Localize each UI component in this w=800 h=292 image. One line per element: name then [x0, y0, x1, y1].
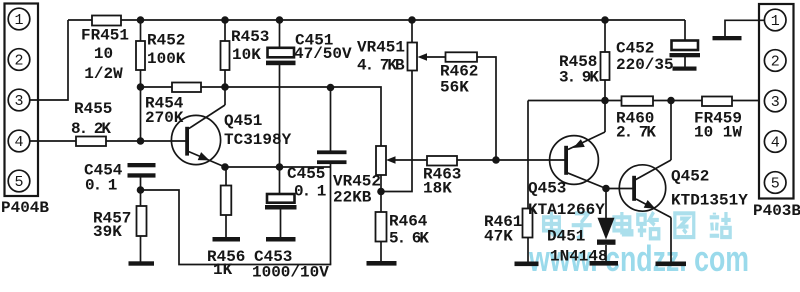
wire C452 bottom stub [684, 57, 686, 67]
svg-text:1: 1 [771, 13, 780, 30]
potentiometer VR451 wiper arrow [418, 53, 428, 60]
node junction C454 bottom [137, 186, 145, 194]
node junction rail/C451 [276, 16, 284, 24]
node junction emitter/C453 [276, 163, 284, 171]
svg-text:18K: 18K [423, 180, 452, 198]
svg-text:FR451: FR451 [81, 27, 129, 45]
svg-text:2: 2 [771, 54, 780, 71]
svg-text:D451: D451 [547, 227, 585, 245]
wire R462 to base line (x=496) [477, 57, 496, 160]
svg-text:Q452: Q452 [671, 168, 709, 186]
svg-text:5. 6K: 5. 6K [389, 230, 429, 248]
node junction VR452 bottom/R464 [377, 188, 385, 196]
svg-text:P404B: P404B [1, 199, 49, 217]
capacitor C452 negative plate [670, 53, 701, 57]
svg-text:10: 10 [94, 45, 113, 63]
connector P404B (pins 1-5) [5, 4, 39, 197]
svg-text:R455: R455 [74, 100, 112, 118]
svg-text:TC3198Y: TC3198Y [224, 131, 292, 149]
capacitor C451 47/50V (electrolytic) positive plate [268, 48, 295, 58]
svg-text:4: 4 [771, 135, 780, 152]
svg-text:8. 2K: 8. 2K [71, 120, 111, 138]
earth bar near P403B pin1 [713, 36, 742, 40]
svg-text:KTD1351Y: KTD1351Y [671, 192, 748, 210]
svg-text:4: 4 [14, 134, 23, 151]
potentiometer VR451 4.7KB body [408, 43, 418, 71]
ground under R464 [367, 261, 397, 266]
transistor Q452 KTD1351Y (NPN) [619, 165, 665, 211]
svg-text:C455: C455 [287, 165, 325, 183]
capacitor C451 negative plate [266, 61, 296, 66]
node junction rail/R452 [137, 16, 145, 24]
wire rail corner down to C452 [684, 20, 686, 41]
potentiometer VR452 22KB body [376, 146, 386, 175]
wire Q453 emitter vertical [604, 101, 606, 133]
wire bottom return (C454 node to C455 bottom) [141, 190, 332, 265]
svg-text:R452: R452 [147, 31, 185, 49]
node junction output/R458/Q453 emitter [601, 97, 609, 105]
resistor R456 1K [221, 186, 232, 216]
capacitor C452 220/35 (electrolytic) positive plate [672, 41, 699, 51]
svg-text:KTA1266Y: KTA1266Y [528, 201, 605, 219]
svg-text:47K: 47K [484, 228, 513, 246]
ground under R457 [129, 261, 155, 265]
wire node B to C455 top [330, 88, 332, 151]
resistor R458 3.9K [601, 52, 610, 80]
potentiometer VR452 wiper arrow [386, 156, 396, 163]
ground under C452 [673, 67, 697, 71]
wire Q452 emitter to ground [670, 218, 672, 263]
svg-text:0. 1: 0. 1 [85, 177, 117, 195]
wire P403B pin1 to earth stub [725, 20, 765, 36]
wire C451/C453 branch upper [279, 20, 281, 48]
transistor Q451 TC3198Y (NPN) [171, 115, 220, 164]
wire VR451 branch from rail [411, 20, 413, 43]
svg-text:100K: 100K [147, 50, 186, 68]
svg-text:2. 7K: 2. 7K [616, 124, 656, 142]
svg-text:47/50V: 47/50V [294, 45, 352, 63]
ground under R456 [213, 237, 241, 242]
svg-text:3: 3 [771, 94, 780, 111]
svg-text:5: 5 [14, 174, 23, 191]
svg-text:10 1W: 10 1W [694, 124, 742, 142]
node junction rail/R458 [601, 16, 609, 24]
resistor R453 10K [221, 41, 230, 70]
wire C451 to emitter node and C453 [279, 65, 281, 194]
watermark: site logo text (decor under circuit) [544, 212, 562, 234]
node junction output/Q452 collector [667, 97, 675, 105]
wire output line (y=100) to P403B pin3 [528, 100, 760, 102]
node junction bias/R452 [137, 83, 145, 91]
resistor R454 270K (feedback) [172, 83, 201, 93]
wire R461 to ground [527, 238, 529, 263]
svg-text:1/2W: 1/2W [84, 65, 123, 83]
capacitor C453 1000/10V (electrolytic) positive plate [267, 194, 295, 203]
ground under Q452 emitter [656, 262, 687, 267]
diode D451 1N4148 [598, 218, 615, 240]
wire R456 branch [225, 167, 227, 239]
wire D451 cathode to ground [605, 245, 607, 262]
svg-text:1: 1 [14, 12, 23, 29]
resistor FR459 (10 1W, fusible) [702, 97, 732, 107]
svg-text:22KB: 22KB [333, 189, 372, 207]
svg-text:3. 9K: 3. 9K [559, 68, 599, 86]
resistor R463 18K [427, 156, 457, 166]
capacitor C454 0.1 plate B [128, 173, 156, 177]
wire P404B pin4 to base node [30, 140, 141, 142]
capacitor C454 0.1 plate A [128, 163, 156, 167]
wire supply rail (top) [68, 19, 685, 21]
svg-text:39K: 39K [93, 223, 122, 241]
transistor Q453 KTA1266Y (PNP) [550, 136, 599, 185]
svg-text:Q453: Q453 [528, 180, 566, 198]
svg-text:R453: R453 [231, 28, 269, 46]
capacitor C455 0.1 plate B [317, 160, 347, 164]
wire VR451 bottom to VR452 bottom loop [381, 71, 412, 192]
resistor R455 8.2K [76, 137, 106, 147]
node junction Q453 collector/Q452 base/D451 [602, 185, 610, 193]
svg-text:2: 2 [14, 53, 23, 70]
node junction bias/C455 [327, 84, 335, 92]
wire C453 to its ground [280, 209, 282, 238]
svg-text:Q451: Q451 [224, 112, 262, 130]
node junction base node Q451 [137, 137, 145, 145]
svg-text:220/35: 220/35 [616, 56, 674, 74]
wire R458 branch (x=605) [604, 20, 606, 101]
wire VR452 bottom to R464 [380, 175, 382, 262]
svg-text:56K: 56K [440, 79, 469, 97]
node junction bias/collector [221, 83, 229, 91]
svg-text:10K: 10K [232, 46, 261, 64]
svg-text:C452: C452 [616, 40, 654, 58]
wire C454 bottom node to R457 [140, 177, 142, 262]
capacitor C453 negative plate [265, 205, 297, 210]
resistor R461 47K [523, 209, 533, 238]
wire base node to Q451 base [141, 140, 187, 142]
wire Q451 emitter node (y=167) [225, 166, 331, 168]
svg-text:0. 1: 0. 1 [294, 183, 326, 201]
svg-text:P403B: P403B [753, 202, 800, 220]
svg-text:3: 3 [14, 93, 23, 110]
ground under D451 [590, 261, 619, 266]
svg-text:5: 5 [771, 176, 780, 193]
node junction rail/VR451 [408, 16, 416, 24]
wire bias node to VR452 top (y=87) [141, 87, 382, 146]
wire Q452 collector vertical (x=671) [670, 101, 672, 161]
ground under R461 [515, 262, 539, 267]
resistor R457 39K [137, 206, 147, 236]
wire VR452 wiper / R463 / Q453 base (y=160) [394, 159, 566, 161]
wire VR451 wiper to R462 [425, 56, 446, 58]
wire C455 bottom down to bottom return rail [330, 164, 332, 265]
svg-text:1000/10V: 1000/10V [252, 264, 329, 282]
resistor R452 100K [136, 41, 145, 70]
ground under C453 [266, 237, 296, 242]
wire R461 branch (corner from output line down through R461) [527, 101, 529, 209]
node junction base line/R462 [492, 156, 500, 164]
resistor FR451 (10 1/2W, fusible) on rail [92, 16, 121, 26]
svg-text:1K: 1K [213, 261, 233, 279]
svg-text:4. 7KB: 4. 7KB [357, 57, 405, 75]
wire R452/R454/base branch (x=140) [140, 20, 142, 141]
wire from P404B pin3 up to supply rail [30, 20, 69, 100]
resistor R464 5.6K [376, 212, 387, 242]
wire R453/collector branch (x=225) [224, 20, 226, 105]
resistor R462 56K [446, 52, 478, 62]
wire Q453 collector node to Q452 base [606, 188, 633, 190]
connector P403B (pins 1-5) [759, 4, 794, 199]
svg-text:VR451: VR451 [357, 39, 405, 57]
wire Q453 collector node down to D451 [605, 189, 607, 219]
capacitor C455 0.1 plate A [317, 150, 347, 154]
svg-text:R464: R464 [389, 213, 428, 231]
node junction rail/R453 [221, 16, 229, 24]
resistor R460 2.7K [622, 96, 654, 106]
node junction emitter/R456 [221, 163, 229, 171]
